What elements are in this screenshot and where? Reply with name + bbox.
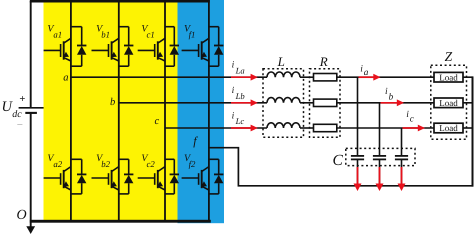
- wire: load return bus: [472, 76, 474, 186]
- svg-text:Lb: Lb: [235, 91, 246, 101]
- wire: leg c vertical: [164, 0, 166, 221]
- svg-text:a2: a2: [53, 159, 62, 169]
- svg-text:i: i: [232, 111, 235, 121]
- dashed box Z (load): [431, 65, 467, 139]
- current arrow i_b: [381, 102, 398, 104]
- capacitor at x=401.5: [395, 155, 408, 157]
- resistor R (three elements): [314, 74, 337, 81]
- svg-text:i: i: [406, 110, 409, 120]
- load box phase a: [434, 72, 463, 82]
- svg-text:b: b: [389, 91, 394, 101]
- battery U_dc long plate: [19, 107, 44, 109]
- current arrow i_Lc: [231, 127, 251, 129]
- svg-text:−: −: [17, 119, 23, 131]
- capacitor current arrow: [379, 167, 381, 185]
- wire: left DC link upper: [30, 1, 32, 107]
- svg-text:i: i: [232, 86, 235, 96]
- dashed box L: [263, 69, 304, 138]
- diode D_f1: [209, 27, 224, 66]
- dashed box C: [346, 148, 415, 165]
- wire: capacitor tap c: [401, 128, 403, 156]
- diode D_a1: [71, 27, 87, 66]
- diode D_f2: [209, 159, 224, 194]
- svg-text:b2: b2: [101, 159, 110, 169]
- top DC bus rail: [30, 0, 210, 3]
- IGBT V_b2: [92, 167, 119, 190]
- svg-text:Z: Z: [445, 49, 453, 64]
- svg-text:Load: Load: [439, 123, 458, 133]
- svg-text:L: L: [277, 54, 285, 69]
- wire: phase c output line: [165, 127, 473, 129]
- current arrow i_c: [403, 127, 419, 129]
- capacitor at x=379.5: [373, 155, 386, 157]
- diode D_b2: [119, 159, 134, 194]
- wire: left DC link lower: [30, 113, 32, 228]
- inductor L (three coils): [267, 72, 300, 77]
- svg-text:dc: dc: [12, 109, 22, 120]
- svg-text:Load: Load: [439, 72, 458, 82]
- svg-text:i: i: [385, 87, 388, 97]
- current arrow i_Lb: [231, 102, 251, 104]
- IGBT V_c1: [138, 38, 165, 61]
- bottom DC bus rail: [30, 220, 211, 223]
- IGBT V_c2: [138, 167, 165, 190]
- svg-text:f2: f2: [189, 159, 196, 169]
- svg-text:Load: Load: [439, 98, 458, 108]
- svg-text:c2: c2: [147, 159, 156, 169]
- load box phase c: [434, 123, 463, 133]
- IGBT V_a1: [44, 38, 71, 61]
- yellow highlight band (three-phase legs): [44, 2, 178, 221]
- svg-text:C: C: [333, 152, 344, 169]
- svg-text:R: R: [319, 54, 328, 69]
- wire: leg a vertical: [70, 0, 72, 221]
- svg-text:La: La: [235, 65, 245, 75]
- dashed box R: [310, 69, 341, 138]
- IGBT V_f2: [182, 167, 209, 190]
- current arrow i_a: [359, 76, 375, 78]
- wire: phase b output line: [119, 102, 473, 104]
- diode D_c1: [165, 27, 179, 66]
- IGBT V_f1: [182, 38, 209, 61]
- svg-text:a: a: [63, 72, 68, 83]
- svg-text:a1: a1: [53, 30, 62, 40]
- svg-text:i: i: [232, 61, 235, 71]
- svg-text:a: a: [364, 67, 369, 77]
- current arrow i_La: [231, 76, 251, 78]
- svg-text:c: c: [410, 113, 414, 123]
- wire: phase a output line: [71, 76, 473, 78]
- svg-text:b1: b1: [101, 30, 110, 40]
- capacitor current arrow: [357, 167, 359, 185]
- wire: capacitor tap a: [357, 77, 359, 155]
- load box phase b: [434, 98, 463, 108]
- diode D_b1: [119, 27, 134, 66]
- IGBT V_b1: [92, 38, 119, 61]
- diode D_a2: [71, 159, 87, 194]
- wire: leg f vertical: [208, 0, 210, 221]
- wire: neutral leg f to bottom return: [209, 148, 473, 186]
- battery U_dc short plate: [25, 112, 37, 114]
- wire: capacitor tap b: [379, 103, 381, 156]
- svg-text:O: O: [17, 208, 27, 223]
- svg-text:c1: c1: [147, 30, 155, 40]
- capacitor at x=357.5: [351, 155, 364, 157]
- svg-text:f1: f1: [189, 30, 196, 40]
- blue highlight band (fourth leg f): [178, 0, 225, 223]
- svg-text:Lc: Lc: [235, 116, 245, 126]
- capacitor current arrow: [401, 167, 403, 185]
- wire: leg b vertical: [118, 0, 120, 221]
- arrow at node O pointing down: [26, 226, 35, 234]
- IGBT V_a2: [44, 167, 71, 190]
- svg-text:c: c: [155, 116, 160, 127]
- svg-text:+: +: [19, 94, 25, 105]
- svg-text:b: b: [110, 97, 115, 108]
- diode D_c2: [165, 159, 179, 194]
